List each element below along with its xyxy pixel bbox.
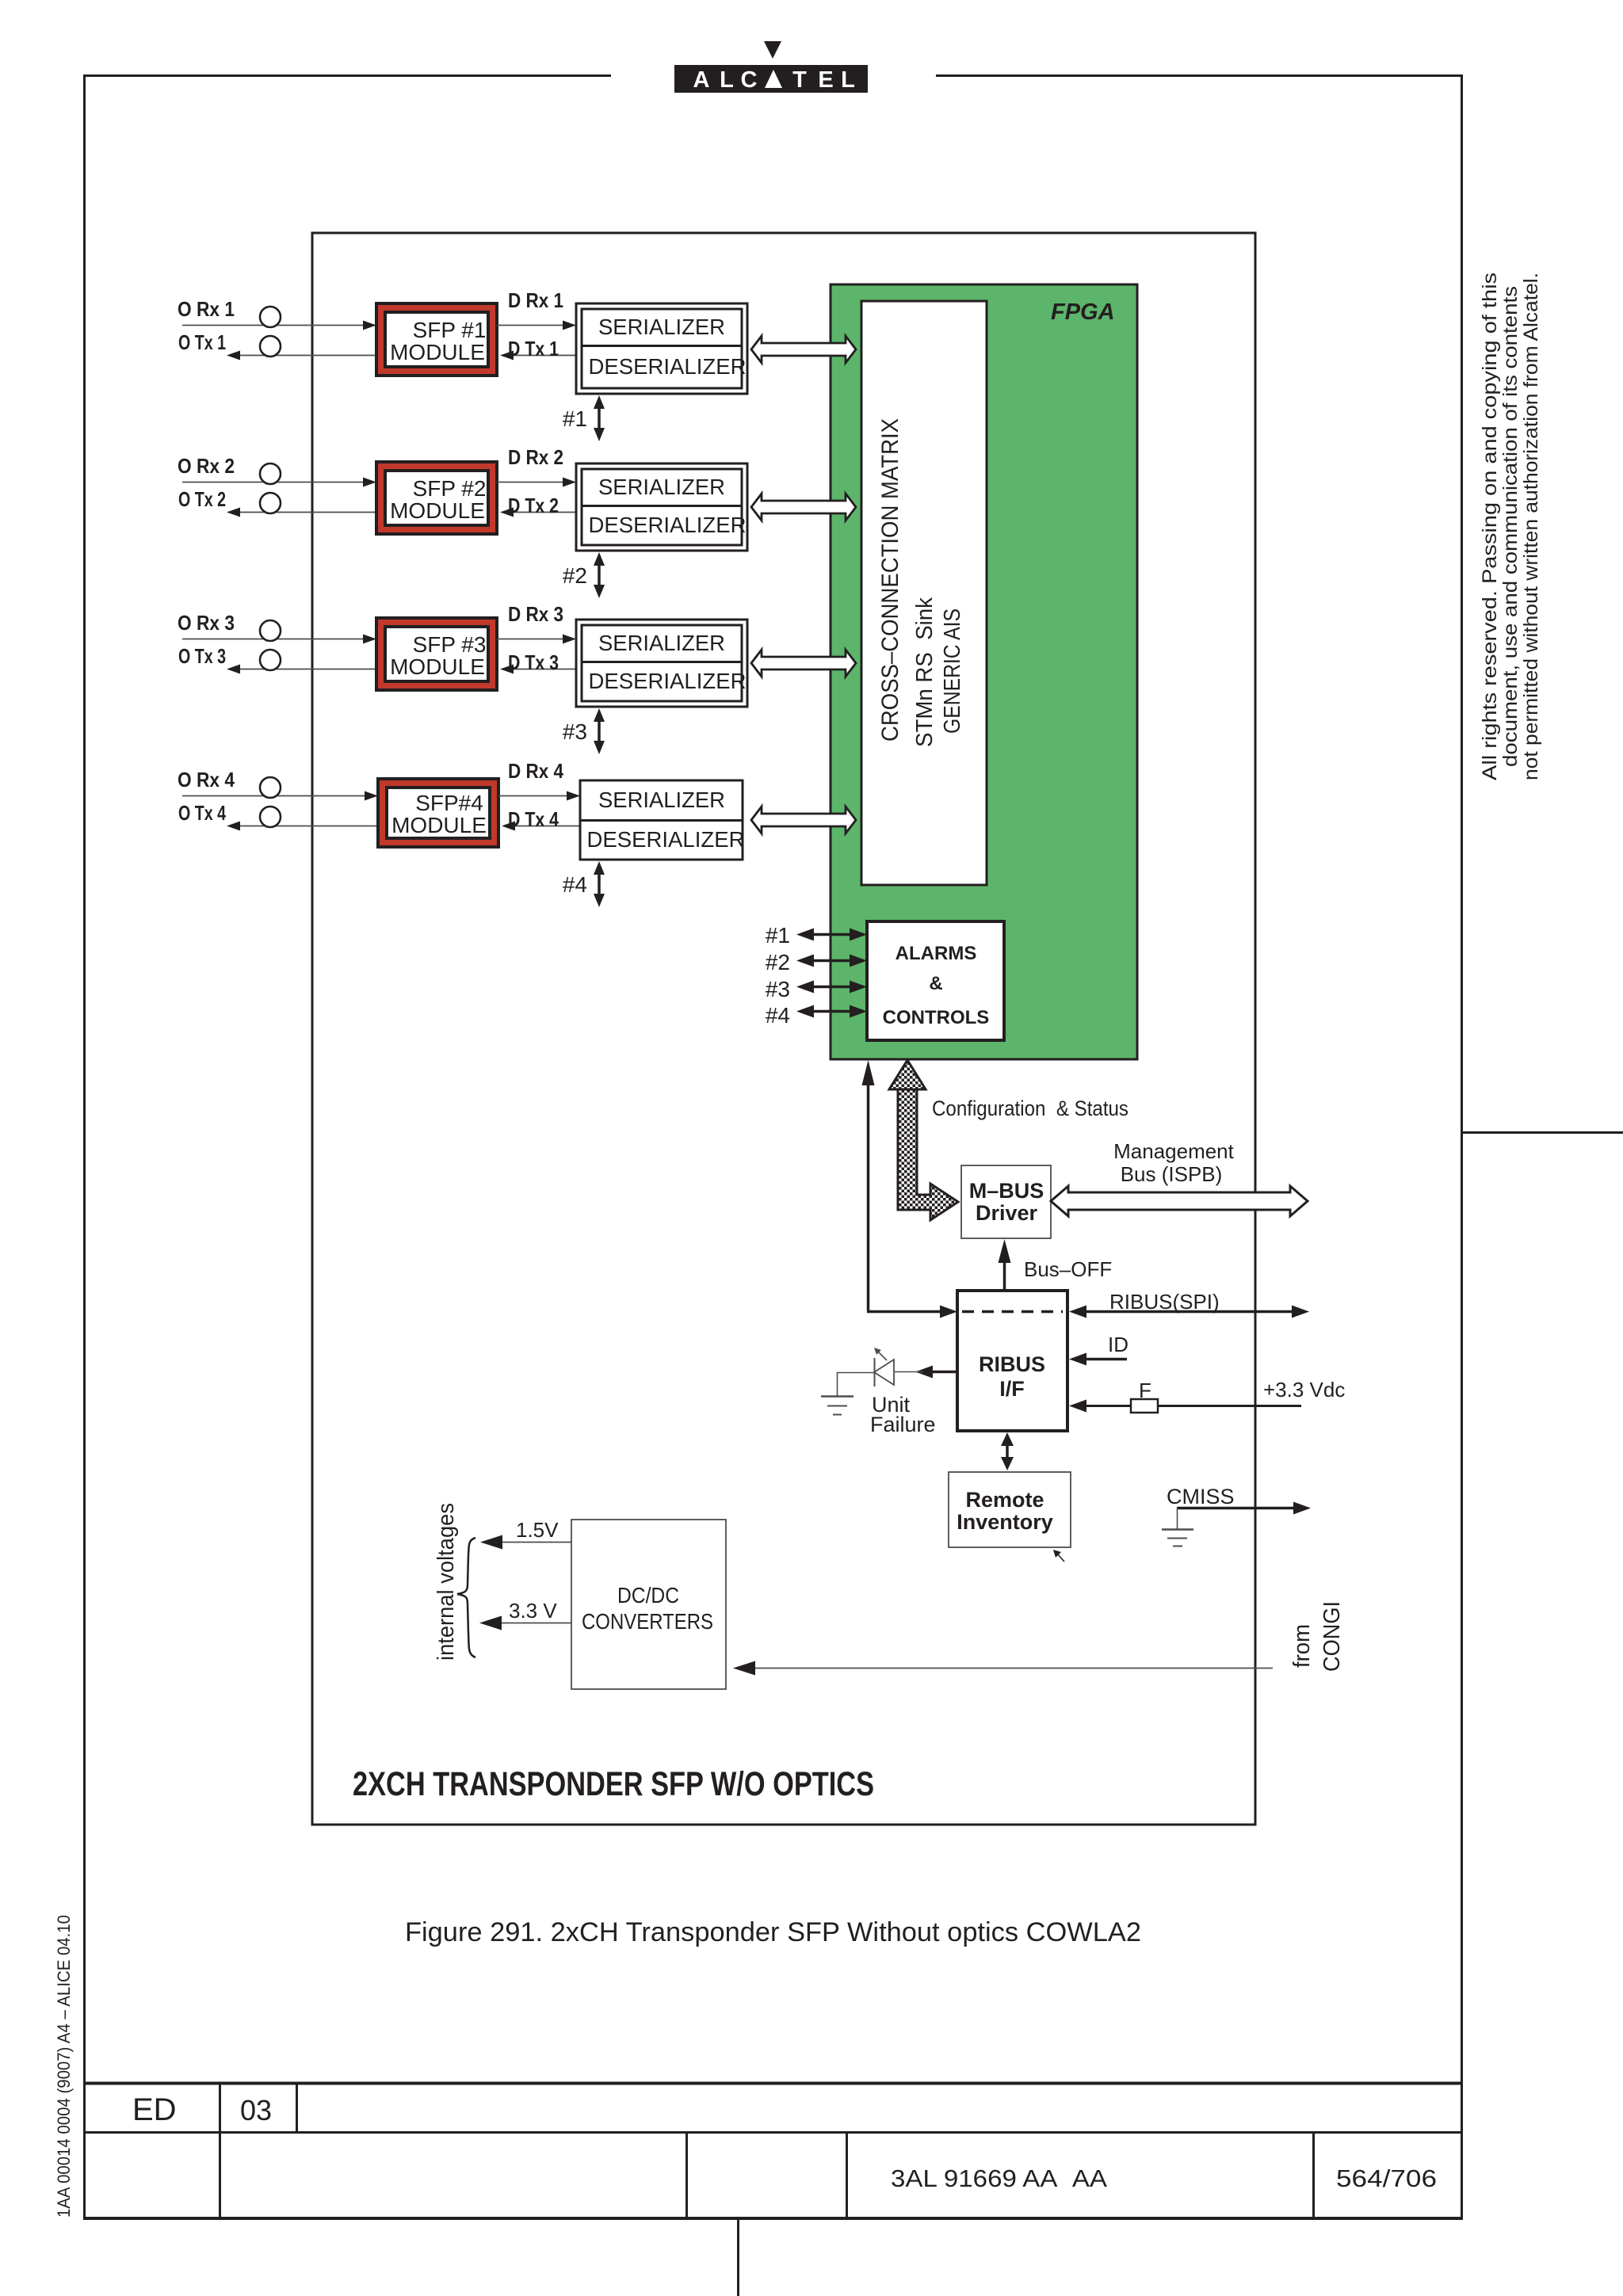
TITLEBLOCK xyxy=(84,2083,1463,2296)
svg-text:2XCH TRANSPONDER SFP W/O OPTIC: 2XCH TRANSPONDER SFP W/O OPTICS xyxy=(353,1765,874,1803)
RIBUS IF box xyxy=(957,1291,1067,1431)
wire O Tx 1 xyxy=(231,355,376,357)
svg-text:O Tx 4: O Tx 4 xyxy=(178,801,226,825)
svg-text:D Tx 4: D Tx 4 xyxy=(508,807,559,831)
link arrow 2 xyxy=(598,559,601,592)
M-BUS driver xyxy=(961,1165,1051,1238)
svg-text:A: A xyxy=(693,67,710,93)
svg-text:document, use and communicatio: document, use and communication of its c… xyxy=(1499,286,1522,767)
wire O Tx 3 xyxy=(231,669,376,670)
Bus-OFF arrow xyxy=(999,1239,1113,1291)
ALARMS CONTROLS box xyxy=(867,921,1004,1040)
svg-text:DESERIALIZER: DESERIALIZER xyxy=(589,513,747,537)
svg-text:ID: ID xyxy=(1108,1333,1128,1356)
3.3V line xyxy=(502,1623,571,1624)
svg-text:O Rx 3: O Rx 3 xyxy=(178,611,235,635)
triangle above logo xyxy=(764,41,781,59)
svg-text:#4: #4 xyxy=(766,1003,790,1028)
bus arrow 3 xyxy=(751,650,856,677)
svg-text:O Tx 1: O Tx 1 xyxy=(178,330,226,354)
svg-text:SERIALIZER: SERIALIZER xyxy=(598,475,725,499)
INNER DIAGRAM FRAME xyxy=(312,233,1255,1825)
bus arrow 1 xyxy=(751,336,856,363)
wire O Rx 4 xyxy=(182,795,372,797)
svg-text:Failure: Failure xyxy=(870,1413,936,1436)
unit failure LED xyxy=(821,1348,957,1436)
svg-text:MODULE: MODULE xyxy=(390,654,485,679)
wire D Tx 2 xyxy=(505,512,576,513)
svg-text:#3: #3 xyxy=(563,719,587,744)
svg-text:ED: ED xyxy=(132,2092,177,2127)
link arrow 4 xyxy=(598,868,601,901)
brace xyxy=(457,1538,475,1657)
svg-text:C: C xyxy=(741,67,758,93)
left border xyxy=(83,74,86,2220)
svg-text:L: L xyxy=(841,67,855,93)
svg-text:RIBUS(SPI): RIBUS(SPI) xyxy=(1109,1290,1220,1314)
connector O Tx 2 xyxy=(260,493,281,513)
pointer mark xyxy=(1057,1554,1064,1562)
from CONGI line xyxy=(750,1668,1273,1669)
connector O Tx 4 xyxy=(260,807,281,827)
svg-text:Configuration & Status: Configuration & Status xyxy=(932,1097,1128,1120)
SFP module 4 xyxy=(378,779,498,847)
svg-text:MODULE: MODULE xyxy=(391,813,487,837)
svg-text:MODULE: MODULE xyxy=(390,498,485,523)
wire D Rx 2 xyxy=(497,482,571,483)
link arrow 3 xyxy=(598,715,601,748)
connector O Tx 1 xyxy=(260,336,281,357)
svg-text:564/706: 564/706 xyxy=(1336,2164,1437,2192)
connector O Rx 1 xyxy=(260,307,281,327)
wire D Rx 1 xyxy=(497,325,571,326)
wire O Rx 2 xyxy=(182,482,371,483)
svg-text:SERIALIZER: SERIALIZER xyxy=(598,631,725,655)
connector O Rx 3 xyxy=(260,620,281,641)
logo box xyxy=(674,65,868,93)
wire D Tx 1 xyxy=(505,355,576,357)
svg-text:DESERIALIZER: DESERIALIZER xyxy=(589,354,747,379)
svg-text:D Rx 2: D Rx 2 xyxy=(508,445,563,469)
CMISS line xyxy=(1162,1485,1311,1547)
svg-text:D Tx 2: D Tx 2 xyxy=(508,494,559,517)
fuse line 3.3Vdc xyxy=(1069,1378,1345,1413)
alarm link 4 xyxy=(802,1010,864,1013)
svg-text:FPGA: FPGA xyxy=(1051,299,1115,325)
svg-text:Bus (ISPB): Bus (ISPB) xyxy=(1121,1162,1223,1186)
right vertical sidenote xyxy=(1479,273,1542,780)
SFP module 2 xyxy=(376,462,497,534)
svg-text:F: F xyxy=(1139,1379,1151,1402)
svg-text:1AA 00014 0004 (9007) A4 – ALI: 1AA 00014 0004 (9007) A4 – ALICE 04.10 xyxy=(54,1915,74,2218)
right side rule xyxy=(1461,1131,1623,1134)
svg-text:#1: #1 xyxy=(766,923,790,948)
svg-text:#2: #2 xyxy=(563,563,587,588)
svg-text:internal voltages: internal voltages xyxy=(433,1503,459,1661)
svg-text:CONTROLS: CONTROLS xyxy=(883,1007,990,1028)
svg-text:I/F: I/F xyxy=(999,1377,1025,1401)
svg-text:O Tx 3: O Tx 3 xyxy=(178,644,226,668)
matrix box xyxy=(861,301,987,885)
FPGA green block xyxy=(831,284,1137,1059)
svg-text:O Rx 2: O Rx 2 xyxy=(178,454,235,478)
svg-text:#1: #1 xyxy=(563,406,587,431)
1.5V line xyxy=(502,1542,571,1543)
svg-text:E: E xyxy=(818,67,833,93)
svg-text:CMISS: CMISS xyxy=(1167,1485,1235,1508)
svg-text:O Rx 1: O Rx 1 xyxy=(178,297,235,321)
alarm link 3 xyxy=(802,986,864,989)
svg-text:Figure 291. 2xCH Transponder S: Figure 291. 2xCH Transponder SFP Without… xyxy=(405,1917,1141,1947)
svg-text:+3.3 Vdc: +3.3 Vdc xyxy=(1263,1378,1345,1402)
ID line xyxy=(1069,1333,1128,1366)
svg-text:GENERIC AIS: GENERIC AIS xyxy=(940,608,965,734)
svg-text:O Tx 2: O Tx 2 xyxy=(178,487,226,511)
alarm link 2 xyxy=(802,959,864,963)
svg-text:DESERIALIZER: DESERIALIZER xyxy=(589,669,747,693)
top border right segment xyxy=(936,74,1463,77)
svg-text:T: T xyxy=(792,67,807,93)
remote inventory xyxy=(949,1432,1071,1562)
svg-text:#3: #3 xyxy=(766,977,790,1001)
svg-text:STMn RS Sink: STMn RS Sink xyxy=(912,597,938,747)
svg-text:O Rx 4: O Rx 4 xyxy=(178,768,235,791)
CHANNEL 2 xyxy=(178,445,856,598)
svg-text:DC/DC: DC/DC xyxy=(617,1583,679,1608)
SFP module 3 xyxy=(376,618,497,690)
svg-text:1.5V: 1.5V xyxy=(516,1518,559,1542)
svg-text:3.3 V: 3.3 V xyxy=(509,1599,557,1623)
svg-text:SERIALIZER: SERIALIZER xyxy=(598,788,725,812)
svg-text:D Rx 3: D Rx 3 xyxy=(508,602,563,626)
right border xyxy=(1461,74,1463,2220)
DC DC converters xyxy=(433,1503,1345,1689)
SFP module 1 xyxy=(376,303,497,376)
wire D Rx 3 xyxy=(497,639,571,640)
bus arrow 4 xyxy=(751,807,856,833)
link arrow 1 xyxy=(598,402,601,435)
svg-text:D Tx 1: D Tx 1 xyxy=(508,337,559,360)
config status hatched arrow xyxy=(889,1060,1128,1220)
wire O Rx 1 xyxy=(182,325,371,326)
svg-text:&: & xyxy=(929,973,942,994)
connector O Rx 2 xyxy=(260,463,281,484)
connector O Rx 4 xyxy=(260,777,281,798)
svg-text:Remote: Remote xyxy=(965,1488,1044,1512)
serdes 1 xyxy=(576,303,747,394)
center tick below xyxy=(737,2220,739,2296)
ground CMISS xyxy=(1162,1528,1193,1530)
svg-text:D Rx 4: D Rx 4 xyxy=(508,759,563,783)
svg-text:3AL 91669 AA AA: 3AL 91669 AA AA xyxy=(891,2164,1107,2192)
bus arrow 2 xyxy=(751,494,856,521)
svg-text:D Rx 1: D Rx 1 xyxy=(508,288,563,312)
svg-text:from: from xyxy=(1289,1624,1315,1668)
svg-text:not permitted without written: not permitted without written authorizat… xyxy=(1520,273,1542,780)
CHANNEL 4 xyxy=(178,759,856,907)
ground unit failure xyxy=(821,1395,854,1397)
svg-text:All rights reserved. Passing o: All rights reserved. Passing on and copy… xyxy=(1479,273,1501,780)
svg-text:SFP #1: SFP #1 xyxy=(413,318,487,342)
svg-text:#2: #2 xyxy=(766,950,790,974)
connector O Tx 3 xyxy=(260,650,281,670)
serdes 3 xyxy=(576,620,747,707)
LOGO xyxy=(674,41,868,93)
svg-text:#4: #4 xyxy=(563,872,587,897)
wire D Tx 4 xyxy=(506,826,580,827)
management bus arrow xyxy=(1051,1186,1308,1216)
wire D Rx 4 xyxy=(498,795,575,797)
svg-text:CONGI: CONGI xyxy=(1319,1601,1345,1672)
svg-text:ALARMS: ALARMS xyxy=(896,943,977,964)
svg-text:CONVERTERS: CONVERTERS xyxy=(582,1609,713,1634)
serdes 2 xyxy=(576,463,747,551)
svg-text:SFP #3: SFP #3 xyxy=(413,632,487,657)
svg-text:03: 03 xyxy=(240,2094,272,2126)
svg-text:RIBUS: RIBUS xyxy=(979,1352,1045,1376)
CHANNEL 3 xyxy=(178,602,856,754)
top border left segment xyxy=(83,74,611,77)
svg-text:MODULE: MODULE xyxy=(390,340,485,364)
svg-text:M–BUS: M–BUS xyxy=(969,1179,1044,1203)
svg-text:Driver: Driver xyxy=(976,1201,1038,1225)
serdes 4 xyxy=(580,780,743,860)
wire O Tx 4 xyxy=(231,826,378,827)
svg-text:Management: Management xyxy=(1113,1139,1235,1163)
wire O Tx 2 xyxy=(231,512,376,513)
RIBUS SPI line xyxy=(1069,1290,1309,1318)
svg-text:SERIALIZER: SERIALIZER xyxy=(598,315,725,339)
wire O Rx 3 xyxy=(182,639,371,640)
wire D Tx 3 xyxy=(505,669,576,670)
ALARMS side arrows xyxy=(766,923,867,1028)
svg-text:SFP #2: SFP #2 xyxy=(413,476,487,501)
svg-text:SFP#4: SFP#4 xyxy=(415,791,483,815)
svg-text:CROSS–CONNECTION MATRIX: CROSS–CONNECTION MATRIX xyxy=(877,418,903,742)
svg-text:L: L xyxy=(720,67,734,93)
svg-text:Inventory: Inventory xyxy=(957,1510,1053,1534)
alarm link 1 xyxy=(802,933,864,936)
svg-text:Bus–OFF: Bus–OFF xyxy=(1024,1257,1112,1281)
CHANNEL 1 xyxy=(178,288,856,441)
svg-text:DESERIALIZER: DESERIALIZER xyxy=(587,827,745,852)
svg-text:D Tx 3: D Tx 3 xyxy=(508,650,559,674)
status feedback arrow xyxy=(862,1060,958,1318)
